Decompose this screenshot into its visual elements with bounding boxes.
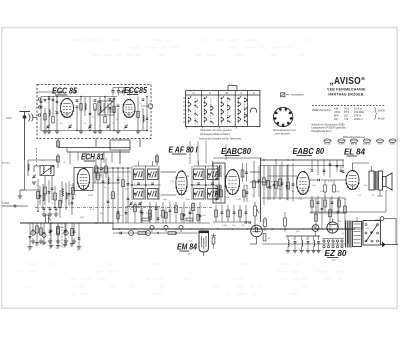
svg-text:5n: 5n [35,245,37,247]
svg-text:U-KW: U-KW [378,110,385,113]
svg-text:ECH81: ECH81 [338,144,345,146]
svg-text:16,5 -: 16,5 - [344,107,351,111]
svg-text:VEB FEINMECHANIK: VEB FEINMECHANIK [327,88,366,92]
svg-text:MW :: MW : [334,114,340,118]
svg-text:HARTHAU ERZGEB.: HARTHAU ERZGEB. [328,93,364,97]
svg-text:100 MHz: 100 MHz [354,110,365,114]
svg-text:0,5M: 0,5M [222,225,227,227]
svg-text:EAF80: EAF80 [351,143,358,146]
svg-text:Tastensatz von oben g: Tastensatz von oben gesehen [200,129,232,132]
svg-text:M-LW: M-LW [378,118,385,121]
svg-text:2000 m: 2000 m [354,117,363,121]
svg-text:A: A [253,91,255,95]
svg-text:0,5M: 0,5M [236,199,241,201]
svg-text:1M: 1M [316,225,319,227]
svg-text:0,5M: 0,5M [88,195,93,197]
svg-text:ECH 81: ECH 81 [81,152,104,162]
svg-text:5n: 5n [49,248,51,250]
svg-text:1M: 1M [133,177,136,179]
svg-text:220: 220 [366,228,369,230]
svg-text:EABC80: EABC80 [221,146,251,156]
svg-text:Netzschalter: Netzschalter [291,93,304,96]
svg-text:UKW: UKW [6,117,12,120]
svg-text:KW :: KW : [334,107,340,111]
svg-text:(Ruhelage) (Wellenscha: (Ruhelage) (Wellenschalter) [200,133,230,136]
svg-text:1k: 1k [44,195,46,197]
svg-text:2n: 2n [68,203,70,205]
svg-text:0,5M: 0,5M [188,213,193,215]
svg-text:187 -: 187 - [344,114,350,118]
svg-text:ECC85: ECC85 [124,85,147,95]
svg-text:ECC 85: ECC 85 [52,86,77,96]
svg-text:E AF 80 I: E AF 80 I [169,145,199,155]
svg-text:„AVISO“: „AVISO“ [330,76,366,87]
svg-text:5n: 5n [42,245,44,247]
svg-text:EL 84: EL 84 [344,147,365,157]
svg-text:Wellenbereiche: Wellenbereiche [312,108,331,112]
svg-text:51,5 m: 51,5 m [354,107,362,111]
svg-text:EABC80: EABC80 [363,143,372,146]
svg-text:EZ 80: EZ 80 [325,248,347,258]
svg-text:EABC 80: EABC 80 [293,146,325,156]
svg-text:578 m: 578 m [354,114,361,118]
svg-text:5k: 5k [60,191,62,193]
svg-text:K: K [209,91,211,95]
svg-text:Ansicht der Kontakte auf die T: Ansicht der Kontakte auf die Tastenseite [199,138,242,141]
svg-text:EM 84: EM 84 [177,242,197,252]
svg-text:714 -: 714 - [344,117,350,121]
svg-text:Röhrenbestückung: Röhrenbestückung [343,135,366,139]
svg-text:Klangblende bei U: Klangblende bei U [312,130,332,133]
svg-text:unten gesehen: unten gesehen [275,133,291,136]
svg-text:Bl. 1: Bl. 1 [188,254,193,256]
svg-text:U: U [193,91,195,95]
svg-text:1M: 1M [286,179,289,181]
svg-text:UKW Ant.: UKW Ant. [1,162,11,165]
svg-text:M: M [226,91,228,95]
svg-text:ECC85: ECC85 [324,144,331,146]
svg-text:L M K: L M K [3,201,10,205]
svg-text:87,5 -: 87,5 - [344,110,351,114]
svg-text:LW :: LW : [334,117,339,121]
svg-text:Röhrenfassungen von: Röhrenfassungen von [273,129,296,132]
svg-text:UKW :: UKW : [334,110,342,114]
